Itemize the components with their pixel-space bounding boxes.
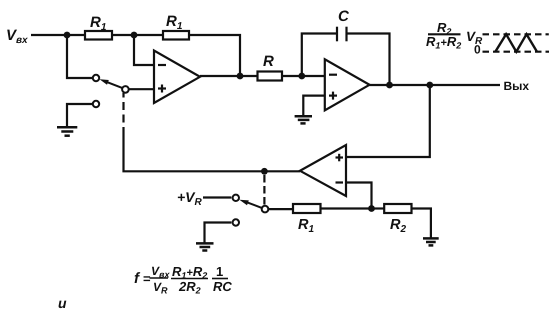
waveform zero dashed level line [483,51,550,53]
waveform top dashed level line [483,33,549,35]
wire comparator output to switch control [124,135,301,171]
svg-text:1: 1 [216,264,223,279]
switch S2 contact b [233,219,239,225]
svg-text:R1: R1 [90,14,107,33]
node junction D [298,73,305,80]
node junction C op1 output [237,73,244,80]
svg-text:RC: RC [213,279,232,294]
waveform fraction bar [428,33,461,35]
wire H to R2 [372,207,385,209]
label и figure letter [58,295,67,311]
wire +VR lead [203,196,231,198]
svg-text:Vвх: Vвх [151,264,170,280]
wire op2 non-inverting to ground [303,96,325,116]
svg-text:R1: R1 [298,217,314,235]
node Vвх input label [6,27,28,46]
wire op1 output to R [200,75,258,77]
op-amp U2 [325,59,370,110]
node junction E cap feedback [386,82,393,89]
svg-text:C: C [338,8,350,25]
node junction A [64,32,71,39]
svg-text:2R2: 2R2 [178,279,201,296]
wire R to node D [282,75,325,77]
wire A to R1a [67,34,85,36]
op-amp U3 comparator [300,145,346,196]
resistor R1 (first) [85,14,112,40]
waveform triangle wave [495,34,537,52]
switch S1 contact b [93,101,99,107]
op-amp U1 [154,51,200,104]
wire R1a to B [112,34,134,36]
wire R1c to node H [321,207,372,209]
node junction H [368,205,375,212]
svg-text:VR: VR [153,280,168,296]
wire output branch down to comparator plus input [346,85,430,157]
resistor R [258,53,283,81]
wire comparator inverting input to node H [346,183,372,209]
wire dashed control to S1 wiper [122,93,124,135]
svg-text:+VR: +VR [177,189,203,208]
switch S2 arrow [239,200,261,208]
svg-text:0: 0 [474,43,481,57]
wire A down to switch contact [67,35,92,78]
formula f = Vвх/VR (R1+R2)/(2R2) 1/RC [134,264,232,296]
node junction B [131,32,138,39]
ground G4 [423,238,439,245]
svg-text:R1+R2: R1+R2 [426,34,461,51]
wire S2 wiper to R1c [268,208,293,210]
svg-text:и: и [58,295,67,311]
wire op2 output [370,84,501,86]
wire R2 to ground [412,209,431,238]
wire Vвх lead [31,34,67,36]
waveform legend fraction R2/(R1+R2) VR [426,20,483,57]
switch S1 arrow [100,79,123,88]
capacitor C [337,8,350,41]
svg-text:Vвх: Vвх [6,27,28,46]
node +VR label [177,189,203,208]
ground G2 [295,116,312,123]
resistor R1 (second) [163,13,189,40]
formula fraction bars [150,277,229,280]
switch S1 contact a [93,75,99,81]
svg-text:R2: R2 [390,217,406,235]
wire R1b feedback to op1 output [189,35,240,76]
ground G3 [196,243,214,250]
wire contact b to ground [67,104,92,126]
node Вых output label [504,79,530,93]
svg-text:R1: R1 [166,13,183,32]
resistor R1 (third) [293,204,321,235]
switch S2 contact a [233,195,239,201]
resistor R2 [384,204,411,235]
svg-text:R: R [263,53,274,70]
wire dashed control to S2 wiper [263,175,265,205]
ground G1 [57,127,77,135]
node junction F output branch [426,82,433,89]
wire capacitor to op2 output [347,34,390,86]
switch S1 wiper [122,86,129,93]
wire B to R1b [134,34,163,36]
svg-text:Вых: Вых [504,79,530,93]
node junction G [261,168,268,175]
wire D up to capacitor [302,34,337,77]
wire contact b to ground [205,223,232,243]
switch S2 wiper [262,206,269,213]
svg-text:f: f [134,270,141,287]
wire wiper to op1 non-inverting input [129,88,154,90]
wire B to op1 inverting input [134,35,154,65]
